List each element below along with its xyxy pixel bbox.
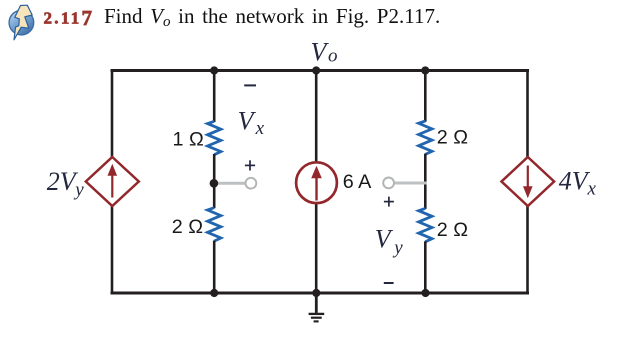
dependent current source 4Vx xyxy=(502,157,555,206)
terminal Vx open circle xyxy=(246,178,257,189)
node Vo label xyxy=(311,37,338,66)
svg-text:x: x xyxy=(255,118,265,139)
label Vx xyxy=(238,107,265,139)
wire top bus xyxy=(112,69,528,72)
junction top branch4 xyxy=(421,66,429,74)
minus sign Vx xyxy=(244,84,256,86)
junction bottom ground node xyxy=(312,289,320,297)
plus sign Vy xyxy=(384,197,394,207)
label 2Vy xyxy=(47,167,84,200)
dependent voltage source 2Vy xyxy=(86,157,139,206)
wire branch2 lower xyxy=(213,241,216,293)
junction branch2 Vx node xyxy=(210,179,219,188)
svg-text:4V: 4V xyxy=(559,167,591,196)
junction bottom branch2 xyxy=(210,289,218,297)
probe lead Vy xyxy=(394,182,427,185)
svg-text:1 Ω: 1 Ω xyxy=(173,129,204,151)
probe lead Vx xyxy=(215,182,245,185)
terminal Vy open circle xyxy=(383,178,394,189)
label Vy xyxy=(375,224,403,258)
svg-text:2 Ω: 2 Ω xyxy=(437,127,468,149)
svg-text:2V: 2V xyxy=(47,167,79,196)
label 4Vx xyxy=(559,167,597,200)
svg-text:2.117: 2.117 xyxy=(44,6,95,30)
minus sign Vy xyxy=(384,282,394,284)
wire branch4 lower xyxy=(424,241,427,293)
svg-text:6 A: 6 A xyxy=(343,171,372,193)
current source 6A xyxy=(296,162,337,203)
wire right branch xyxy=(526,71,529,294)
wire branch3 lower xyxy=(315,203,318,293)
svg-text:2 Ω: 2 Ω xyxy=(172,216,203,238)
resistor 2 ohm branch2 xyxy=(208,208,221,241)
ground xyxy=(309,293,325,321)
wire branch4 middle xyxy=(424,154,427,209)
svg-text:y: y xyxy=(392,238,403,259)
svg-text:Find Vo in the network in Fig.: Find Vo in the network in Fig. P2.117. xyxy=(104,4,440,30)
wire branch2 middle xyxy=(213,154,216,208)
svg-text:2 Ω: 2 Ω xyxy=(437,219,468,241)
junction bottom branch4 xyxy=(421,289,429,297)
svg-text:x: x xyxy=(587,178,597,199)
wire branch3 upper xyxy=(315,71,318,164)
resistor 1 ohm xyxy=(208,121,221,154)
wire left branch xyxy=(111,71,114,294)
svg-text:y: y xyxy=(73,179,84,200)
plus sign Vx xyxy=(245,160,255,170)
wire branch4 upper xyxy=(424,71,427,122)
resistor 2 ohm branch4 top xyxy=(419,121,432,154)
svg-text:o: o xyxy=(328,46,338,67)
resistor 2 ohm branch4 bottom xyxy=(419,208,432,241)
junction top branch3 (node Vo) xyxy=(312,66,320,74)
junction top branch2 xyxy=(210,66,218,74)
wire branch2 upper xyxy=(213,71,216,123)
wire bottom bus xyxy=(112,292,528,295)
problem icon lightning ball xyxy=(9,5,34,40)
